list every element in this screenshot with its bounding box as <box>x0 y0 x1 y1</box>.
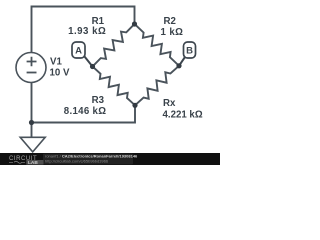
node: left junction (A) <box>90 64 95 69</box>
resistor R1 <box>93 24 135 67</box>
voltage source V1 <box>16 53 46 83</box>
svg-text:B: B <box>186 46 193 57</box>
wire: bottom node to ground junction <box>32 105 136 122</box>
svg-text:R3: R3 <box>92 95 105 106</box>
watermark bar <box>0 153 220 166</box>
svg-text:Rx: Rx <box>163 98 176 109</box>
junction dots <box>29 21 182 125</box>
svg-text:1 kΩ: 1 kΩ <box>161 27 184 38</box>
svg-text:8.146 kΩ: 8.146 kΩ <box>64 106 107 117</box>
node: ground junction <box>29 120 34 125</box>
wire: V1 bottom to ground junction <box>31 83 33 138</box>
resistor R3 <box>93 67 136 106</box>
resistor Rx <box>135 66 179 106</box>
node: top junction <box>132 21 137 26</box>
resistor R2 <box>135 24 180 66</box>
svg-text:R1: R1 <box>92 16 105 27</box>
svg-text:A: A <box>75 46 82 57</box>
labels <box>50 16 203 121</box>
ground <box>20 137 45 152</box>
svg-text:LAB: LAB <box>28 160 38 165</box>
node: right junction (B) <box>176 63 181 68</box>
svg-text:4.221 kΩ: 4.221 kΩ <box>163 110 203 121</box>
svg-text:http://circuitlab.com/c/65b9bb: http://circuitlab.com/c/65b9bbd3966 <box>45 159 109 164</box>
wire: V1 top to bridge top <box>32 7 135 54</box>
svg-text:10 V: 10 V <box>50 67 70 78</box>
svg-text:R2: R2 <box>164 16 176 27</box>
svg-text:1.93 kΩ: 1.93 kΩ <box>68 26 106 37</box>
svg-text:V1: V1 <box>50 57 62 68</box>
node: bottom junction <box>132 103 137 108</box>
node A <box>72 42 93 67</box>
node B <box>179 42 196 66</box>
